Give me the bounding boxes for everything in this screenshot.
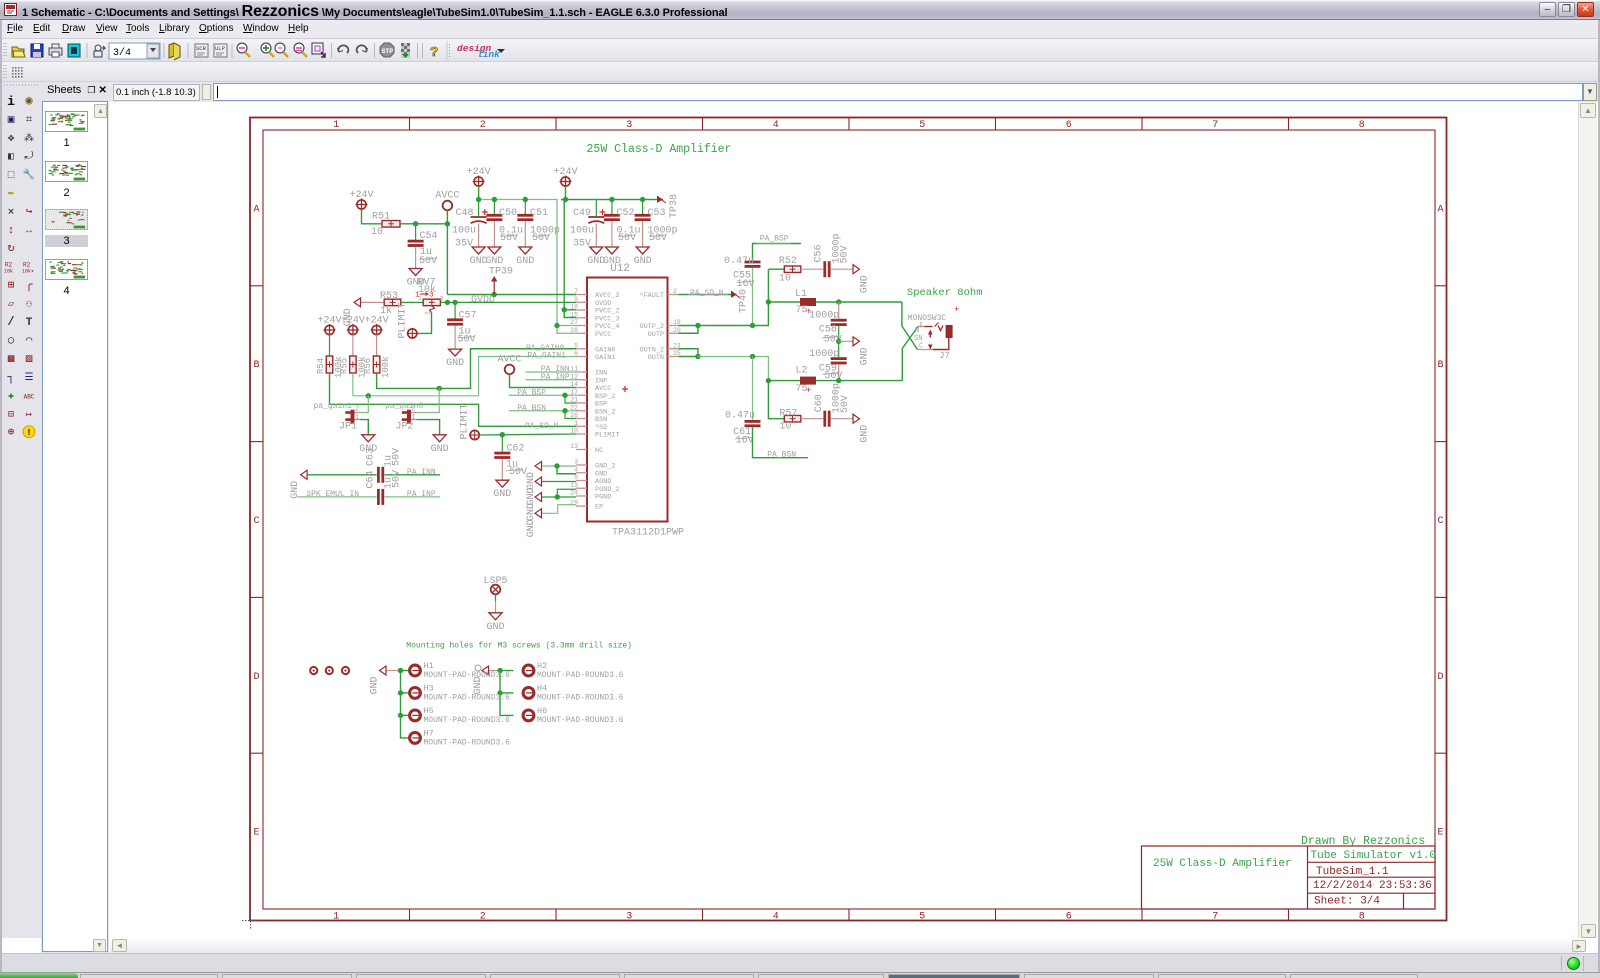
svg-text:1: 1 <box>418 295 422 302</box>
resistor R51 <box>382 221 400 228</box>
pin 28 PVCC <box>576 332 587 334</box>
svg-text:pa_gain1: pa_gain1 <box>314 402 353 411</box>
wire BSP_2 to BSP <box>565 395 576 403</box>
junction C61/OUTN <box>750 354 755 359</box>
svg-text:⁂: ⁂ <box>24 133 34 145</box>
pin 21 BSP <box>576 402 587 404</box>
svg-text:5: 5 <box>919 912 925 923</box>
svg-text:GND: GND <box>431 444 449 455</box>
svg-text:+24V: +24V <box>349 190 373 201</box>
svg-text:R55: R55 <box>339 358 349 374</box>
wire GND to R53 <box>361 301 384 303</box>
wire OUTP to filter <box>698 269 768 325</box>
svg-text:⌒: ⌒ <box>26 335 33 347</box>
svg-text:11: 11 <box>570 366 578 373</box>
svg-text:GND: GND <box>370 676 381 694</box>
svg-text:22: 22 <box>570 404 578 411</box>
capacitor C50 0.1u 50V <box>493 200 495 215</box>
capacitor C49 100u 35V <box>595 200 597 217</box>
wire PA_BSP <box>753 244 802 261</box>
pin 17 BSP_2 <box>576 394 587 396</box>
svg-text:R51: R51 <box>372 212 390 223</box>
wire +24V rail 1 <box>478 186 480 200</box>
svg-text:^SD: ^SD <box>595 423 607 432</box>
svg-text:C57: C57 <box>459 311 477 322</box>
junction BSP <box>562 393 567 398</box>
test point PLIMIT (RV7) <box>408 329 417 338</box>
wire R52 to C56 <box>801 268 823 270</box>
svg-text:H6: H6 <box>537 706 547 716</box>
wire L2 to speaker <box>816 380 902 382</box>
svg-text:OUTN: OUTN <box>648 354 664 362</box>
svg-text:13: 13 <box>570 482 578 489</box>
junction BSN <box>562 408 567 413</box>
svg-text:10k: 10k <box>4 269 13 275</box>
svg-text:3: 3 <box>626 120 632 131</box>
junction C58 top <box>836 299 841 304</box>
wire INP <box>526 379 576 381</box>
ground LSP5 <box>489 613 502 620</box>
wire C63 to PA_INN <box>385 474 441 476</box>
svg-text:C64: C64 <box>366 470 377 488</box>
svg-text:GND: GND <box>860 425 871 443</box>
pin 13 PGND_2 <box>576 487 587 489</box>
capacitor C56 1000p 50V <box>823 261 826 277</box>
svg-text:100k: 100k <box>381 356 391 378</box>
svg-text:1000p: 1000p <box>809 310 839 321</box>
svg-text:✚: ✚ <box>8 391 14 402</box>
svg-text:35V: 35V <box>573 239 591 250</box>
pin 27 PVCC_4 <box>576 325 587 327</box>
supply +24V (R55) <box>348 325 357 334</box>
pin 26 BSN <box>576 418 587 420</box>
svg-text:R53: R53 <box>380 291 398 302</box>
ground C56 <box>853 265 860 274</box>
svg-text:10k▾: 10k▾ <box>22 269 34 275</box>
supply +24V (rail 1) <box>474 177 483 186</box>
svg-text:8: 8 <box>1359 120 1365 131</box>
svg-text:25W Class-D Amplifier: 25W Class-D Amplifier <box>1153 858 1292 870</box>
svg-text:L2: L2 <box>796 366 808 377</box>
svg-text:PA_SD_N: PA_SD_N <box>690 289 724 298</box>
supply +24V (R54) <box>325 325 334 334</box>
test point PLIMIT (pin 10) <box>470 430 479 439</box>
svg-text:+24V: +24V <box>553 167 577 178</box>
svg-text:C60: C60 <box>814 394 825 412</box>
wire R54 to pa_gain1 rail <box>330 373 577 426</box>
junction AVCC/GVDD <box>445 300 450 305</box>
svg-text:C53: C53 <box>648 208 666 219</box>
svg-text:AVCC: AVCC <box>435 191 459 202</box>
svg-text:SPK_EMUL_IN: SPK_EMUL_IN <box>306 490 359 499</box>
wire R53 to RV7 <box>401 301 423 303</box>
svg-text:◉: ◉ <box>25 94 32 108</box>
svg-text:PGND: PGND <box>595 494 611 502</box>
svg-text:╭: ╭ <box>25 278 33 292</box>
wire +24V to R56 <box>376 335 378 356</box>
wire L2 line <box>768 380 800 382</box>
junction rail1 a <box>476 197 481 202</box>
ground left of R53 <box>354 298 361 307</box>
svg-text:PLIMIT: PLIMIT <box>460 403 471 439</box>
mounting hole H7 <box>410 733 421 744</box>
svg-text:50V: 50V <box>392 448 403 466</box>
svg-text:E: E <box>253 828 259 839</box>
svg-text:GND: GND <box>485 256 503 267</box>
sheet origin cross <box>242 912 259 929</box>
wire to ground mid <box>839 340 853 342</box>
svg-text:N: N <box>915 327 919 335</box>
svg-text:TP39: TP39 <box>489 267 513 278</box>
schematic sheet frame <box>250 118 1447 921</box>
svg-text:100u: 100u <box>570 226 594 237</box>
svg-text:GND: GND <box>516 256 534 267</box>
svg-text:B: B <box>253 360 259 371</box>
svg-text:50V: 50V <box>649 233 667 244</box>
pin 9 GVDD <box>576 301 587 303</box>
svg-text:Mounting holes for M3 screws (: Mounting holes for M3 screws (3.3mm dril… <box>406 642 632 651</box>
capacitor C51 1000p 50V <box>524 200 526 215</box>
svg-text:PA_BSP: PA_BSP <box>517 388 546 397</box>
svg-text:T: T <box>26 317 33 329</box>
svg-text:24: 24 <box>570 490 578 497</box>
wire RV7 wiper to PLIMIT test point <box>417 312 432 334</box>
svg-text:R54: R54 <box>316 358 326 374</box>
wire JP2.2 up <box>417 388 440 412</box>
junction PVCC_2 <box>562 307 567 312</box>
ground C50 <box>488 247 501 254</box>
svg-text:12/2/2014 23:53:36: 12/2/2014 23:53:36 <box>1313 880 1432 892</box>
wire BSN <box>509 410 576 412</box>
svg-text:8: 8 <box>1359 912 1365 923</box>
wire C56 to ground <box>831 268 853 270</box>
junction L2 left <box>766 378 771 383</box>
wire +24V to R54 <box>329 335 331 356</box>
wire OUTN to filter <box>698 357 768 381</box>
pin 22 BSN_2 <box>576 410 587 412</box>
pin 4 GND <box>576 472 587 474</box>
svg-text:GND: GND <box>526 519 537 537</box>
svg-text:?: ? <box>430 45 438 61</box>
pin 11 INN <box>576 371 587 373</box>
ground C51 <box>519 247 532 254</box>
pin 13 NC <box>576 449 587 451</box>
svg-text:ABC: ABC <box>24 393 35 400</box>
svg-text:3/4: 3/4 <box>113 47 131 59</box>
svg-text:GND: GND <box>860 347 871 365</box>
svg-text:C48: C48 <box>456 208 474 219</box>
capacitor C62 1u 50V <box>501 435 503 452</box>
svg-text:GVDD: GVDD <box>471 295 495 306</box>
svg-text:C63: C63 <box>366 448 377 466</box>
wire ~FAULT to TP40 <box>679 294 732 296</box>
svg-text:16V: 16V <box>737 279 755 290</box>
svg-text:0.47u: 0.47u <box>724 256 754 267</box>
junction C55/OUTP <box>750 323 755 328</box>
svg-text:28: 28 <box>570 327 578 334</box>
svg-text:D: D <box>253 672 259 683</box>
wire +24V rail 2 <box>565 186 567 200</box>
resistor R53 1k <box>384 299 401 306</box>
pin 14 AVCC <box>576 387 587 389</box>
ground below C54 <box>409 269 422 276</box>
svg-text:50V: 50V <box>840 395 851 413</box>
pin 12 INP <box>576 379 587 381</box>
wire R55 to GAIN1 <box>353 357 576 396</box>
svg-text:B: B <box>1437 360 1443 371</box>
resistor R52 10 <box>784 266 801 273</box>
supply +24V (R56) <box>372 325 381 334</box>
svg-text:+24V: +24V <box>467 167 491 178</box>
svg-text:⊕: ⊕ <box>8 427 15 439</box>
svg-text:PA_BSN: PA_BSN <box>517 404 546 413</box>
svg-text:50V: 50V <box>509 467 527 478</box>
svg-text:⬚: ⬚ <box>8 170 15 182</box>
svg-text:0.47u: 0.47u <box>725 411 755 422</box>
svg-text:+24V: +24V <box>341 316 365 327</box>
svg-text:27: 27 <box>570 319 578 326</box>
svg-text:C51: C51 <box>530 208 548 219</box>
junction L1 left <box>766 299 771 304</box>
wire PLIMIT to pin 10 <box>480 434 577 435</box>
svg-text:☰: ☰ <box>25 373 34 384</box>
junction rail1 C51 <box>523 197 528 202</box>
wire BSN_2 to BSN <box>565 411 576 419</box>
svg-text:10: 10 <box>570 428 578 435</box>
svg-text:PLIMIT: PLIMIT <box>398 302 409 338</box>
pin 20 OUTP <box>668 332 679 334</box>
svg-text:10: 10 <box>371 227 383 238</box>
svg-text:C56: C56 <box>814 244 825 262</box>
ground C58/C59 <box>853 337 860 346</box>
svg-text:!: ! <box>26 428 31 438</box>
svg-text:MOUNT-PAD-ROUND3.6: MOUNT-PAD-ROUND3.6 <box>537 716 624 725</box>
junction rail2 C52 <box>609 197 614 202</box>
wire RV7 to GVDD node <box>440 301 576 303</box>
pin 18 OUTP_2 <box>668 325 679 327</box>
svg-text:16V: 16V <box>736 435 754 446</box>
wire JP2.1 to ground <box>417 420 440 435</box>
pin 25 OUTN <box>668 356 679 358</box>
wire BSP <box>509 394 576 396</box>
pin 10 PLIMIT <box>576 433 587 435</box>
supply +24V (R51 input) <box>357 200 366 209</box>
svg-text:26: 26 <box>570 412 578 419</box>
svg-text:5: 5 <box>574 342 578 349</box>
wire H column 1 <box>401 670 411 672</box>
wire to R52 <box>768 268 784 270</box>
svg-text:A: A <box>1437 204 1443 215</box>
svg-text:TP38: TP38 <box>669 194 680 218</box>
wire L1 line <box>768 301 800 303</box>
svg-text:16: 16 <box>570 304 578 311</box>
svg-text:PLIMIT: PLIMIT <box>595 432 619 440</box>
svg-text:1000p: 1000p <box>809 349 839 360</box>
svg-text:↕: ↕ <box>8 225 15 237</box>
svg-text:6: 6 <box>574 350 578 357</box>
supply +24V (rail 2) <box>561 177 570 186</box>
ground C60 <box>853 414 860 423</box>
svg-text:50V: 50V <box>500 233 518 244</box>
ground JP1 <box>362 435 375 442</box>
svg-text:PA_SD_N: PA_SD_N <box>525 422 559 431</box>
svg-text:TPA3112D1PWP: TPA3112D1PWP <box>612 528 684 539</box>
svg-text:2: 2 <box>480 120 486 131</box>
svg-text:6: 6 <box>1066 912 1072 923</box>
inductor L2 75uH <box>800 377 816 385</box>
svg-text:⌗: ⌗ <box>26 114 32 126</box>
pin 6 GAIN1 <box>576 356 587 358</box>
pin 9 AGND <box>576 480 587 482</box>
svg-text:^FAULT: ^FAULT <box>640 291 664 300</box>
capacitor C60 1000p 50V <box>823 411 826 427</box>
svg-text:GND: GND <box>446 358 464 369</box>
svg-text:+: + <box>954 305 959 315</box>
svg-text:9: 9 <box>574 474 578 481</box>
svg-text:◧: ◧ <box>8 152 14 163</box>
mounting hole H5 <box>410 710 421 721</box>
junction JP2 pin2 <box>437 386 442 391</box>
capacitor C52 0.1u 50V <box>611 200 613 215</box>
svg-text:link: link <box>477 49 500 60</box>
ground C62 <box>496 480 509 487</box>
mounting hole H3 <box>410 688 421 699</box>
capacitor C57 1u 50V <box>454 302 456 318</box>
svg-text:SCR: SCR <box>196 45 207 52</box>
wire +24V to R55 <box>352 335 354 356</box>
svg-text:OUTP: OUTP <box>648 331 664 339</box>
capacitor C53 1000p 50V <box>642 200 644 215</box>
svg-text:MOUNT-PAD-ROUND3.6: MOUNT-PAD-ROUND3.6 <box>424 671 511 680</box>
wire C60 to ground <box>831 418 853 420</box>
svg-text:25W Class-D Amplifier: 25W Class-D Amplifier <box>587 143 732 156</box>
wire OUTP to jack crossing <box>902 302 918 350</box>
junction C57/GVDD <box>452 300 457 305</box>
svg-text:ULP: ULP <box>215 45 225 52</box>
svg-text:GND: GND <box>526 503 537 521</box>
svg-text:5: 5 <box>919 120 925 131</box>
svg-text:15: 15 <box>570 311 578 318</box>
wire R56 to GAIN0 <box>377 349 576 389</box>
svg-text:MOUNT-PAD-ROUND3.6: MOUNT-PAD-ROUND3.6 <box>537 693 624 702</box>
svg-text:🔧: 🔧 <box>23 168 35 182</box>
svg-text:+: + <box>806 386 811 396</box>
svg-text:7: 7 <box>1212 912 1218 923</box>
svg-text:21: 21 <box>570 397 578 404</box>
svg-text:2: 2 <box>673 288 677 295</box>
junction rail1 C50 <box>492 197 497 202</box>
potentiometer RV7 10k <box>423 299 440 306</box>
svg-text:12: 12 <box>570 373 578 380</box>
svg-text:R2: R2 <box>23 262 31 269</box>
junction C62 <box>500 432 505 437</box>
pin 24 PGND <box>576 495 587 497</box>
svg-text:50V: 50V <box>532 233 550 244</box>
junction AVCC/R51 <box>445 221 450 226</box>
svg-text:EP: EP <box>595 504 603 512</box>
capacitor C63 1u 50V <box>377 467 380 483</box>
capacitor C54 <box>415 224 417 240</box>
svg-text:PA_GAIN1: PA_GAIN1 <box>528 352 567 361</box>
wire C61 to PA_BSN <box>753 427 808 458</box>
svg-text:✕: ✕ <box>8 206 15 218</box>
svg-text:H4: H4 <box>537 683 547 693</box>
svg-text:C54: C54 <box>420 231 438 242</box>
wire R51 to node <box>400 223 448 225</box>
resistor R56 100k <box>373 356 380 373</box>
svg-text:29: 29 <box>570 500 578 507</box>
svg-text:⊞: ⊞ <box>8 280 15 292</box>
junction JP1 pin2 <box>366 393 371 398</box>
svg-text:3: 3 <box>574 459 578 466</box>
mounting hole H4 <box>523 688 534 699</box>
mounting hole H2 <box>523 665 534 676</box>
svg-text:STP: STP <box>382 48 394 55</box>
svg-text:TP40: TP40 <box>739 289 750 313</box>
svg-text:R52: R52 <box>779 256 797 267</box>
svg-text:10: 10 <box>779 274 791 285</box>
wire L1 to speaker <box>816 301 902 303</box>
ground C48 <box>472 247 485 254</box>
supply AVCC <box>443 201 453 211</box>
svg-text:2: 2 <box>412 406 416 414</box>
svg-text:GND: GND <box>493 489 511 500</box>
fiducial pads <box>310 667 317 674</box>
svg-text:7: 7 <box>574 288 578 295</box>
wire R57 to C60 <box>801 418 823 420</box>
svg-text:┐: ┐ <box>6 370 14 384</box>
svg-text:↻: ↻ <box>7 241 14 255</box>
svg-text:JP2: JP2 <box>396 422 414 433</box>
junction rail2 a <box>563 197 568 202</box>
svg-text:6: 6 <box>1066 120 1072 131</box>
svg-text:▩: ▩ <box>8 354 15 366</box>
test point TP38 arrow <box>657 196 663 203</box>
svg-text:L1: L1 <box>795 289 807 300</box>
resistor R55 100k <box>350 356 357 373</box>
svg-text:Speaker 8ohm: Speaker 8ohm <box>907 287 983 299</box>
svg-text:50V: 50V <box>840 245 851 263</box>
svg-text:+24V: +24V <box>365 316 389 327</box>
svg-text:↪: ↪ <box>26 206 33 218</box>
wire OUTP_2 merge <box>679 325 699 327</box>
svg-text:PA_BSP: PA_BSP <box>760 235 789 244</box>
svg-text:4: 4 <box>773 120 779 131</box>
pin 2 ^FAULT <box>668 294 679 296</box>
IC ground pins wiring <box>542 465 576 467</box>
svg-text:50V: 50V <box>419 256 437 267</box>
svg-text:R2: R2 <box>5 262 13 269</box>
svg-text:JP1: JP1 <box>339 422 357 433</box>
wire GND to C63 <box>308 474 377 476</box>
wire C64 to PA_INP <box>385 496 441 498</box>
ground C57 <box>449 349 462 356</box>
svg-text:MOUNT-PAD-ROUND3.6: MOUNT-PAD-ROUND3.6 <box>424 716 511 725</box>
ground EP <box>535 509 542 518</box>
svg-text:35V: 35V <box>455 239 473 250</box>
svg-text:C: C <box>1437 516 1443 527</box>
svg-text:14: 14 <box>570 381 578 388</box>
wire +24V to R51 <box>362 209 383 224</box>
svg-text:4: 4 <box>773 912 779 923</box>
svg-text:⤾: ⤾ <box>24 150 33 163</box>
svg-text:7: 7 <box>1212 120 1218 131</box>
op-amp U12 TPA3112D1PWP <box>587 278 668 522</box>
svg-text:C49: C49 <box>573 208 591 219</box>
junction C54 top <box>413 221 418 226</box>
wire C54 to ground <box>415 247 417 269</box>
svg-text:D: D <box>1437 672 1443 683</box>
